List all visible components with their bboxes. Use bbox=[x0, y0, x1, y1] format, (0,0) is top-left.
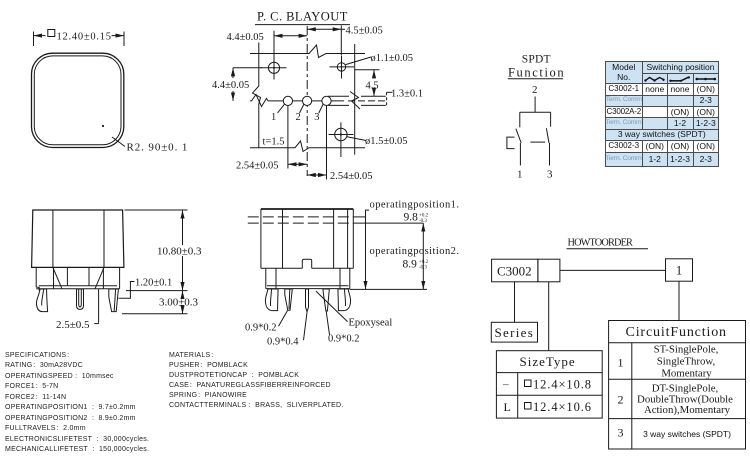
specifications text block bbox=[5, 351, 149, 456]
svg-text:-0.3: -0.3 bbox=[419, 265, 427, 270]
pcb bottom edge line with break bbox=[250, 141, 365, 152]
dimension 2.54±0.05 (bottom left) bbox=[236, 160, 307, 171]
label ø1.5±0.05 with leader bbox=[347, 136, 408, 147]
side view: right hook terminal bbox=[338, 289, 351, 311]
svg-text:+0.2: +0.2 bbox=[419, 214, 429, 219]
svg-text:4.5: 4.5 bbox=[366, 81, 379, 92]
terminal hole 3 bbox=[314, 96, 331, 123]
dimension 1.3±0.1 (strip thickness) bbox=[387, 88, 423, 105]
dimension 4.5±0.05 (top, center to hole) bbox=[307, 26, 383, 56]
svg-text:operatingposition2.: operatingposition2. bbox=[370, 246, 460, 257]
dimension 4.4±0.05 (left, vertical) bbox=[212, 68, 262, 101]
dimension 4.5 (right, vertical) bbox=[355, 70, 380, 96]
dimension 4.4±0.05 (top, hole to center) bbox=[227, 31, 308, 57]
svg-text:t=1.5: t=1.5 bbox=[263, 136, 285, 147]
label ø1.1±0.05 with leader bbox=[346, 53, 413, 65]
front view: middle terminal (U) bbox=[77, 289, 84, 309]
svg-text:Action),Momentary: Action),Momentary bbox=[644, 404, 731, 416]
HOWTOORDER heading bbox=[567, 238, 649, 249]
label 0.9*0.2 (left) with leader bbox=[245, 311, 288, 334]
SPDT schematic: actuator bracket bbox=[507, 137, 515, 149]
SPDT schematic: common stem and bar bbox=[520, 97, 551, 128]
terminal strip centre line with breaks bbox=[250, 95, 388, 107]
side view: base bbox=[266, 268, 350, 288]
svg-text:1: 1 bbox=[271, 112, 276, 123]
svg-text:2: 2 bbox=[296, 112, 301, 123]
SizeType table bbox=[496, 351, 602, 418]
CircuitFunction table bbox=[609, 321, 746, 450]
svg-text:1: 1 bbox=[517, 169, 523, 181]
front view: right terminal bbox=[109, 289, 119, 312]
svg-text:C3002: C3002 bbox=[497, 263, 532, 278]
svg-text:Series: Series bbox=[495, 325, 535, 340]
svg-text:0.9*0.4: 0.9*0.4 bbox=[267, 336, 299, 347]
front view: switch body bbox=[32, 210, 124, 267]
svg-text:Function: Function bbox=[508, 66, 565, 80]
svg-text:SingleThrow,: SingleThrow, bbox=[657, 355, 716, 367]
dimension 1.20±0.1 (terminal width) bbox=[119, 278, 173, 299]
svg-text:4.5±0.05: 4.5±0.05 bbox=[346, 26, 383, 37]
SPDT schematic: right contact lever bbox=[546, 128, 549, 165]
front view: base bbox=[36, 267, 119, 290]
svg-text:2.5±0.5: 2.5±0.5 bbox=[56, 319, 90, 331]
dimension 9.8 +0.2/-0.3 bbox=[354, 210, 429, 289]
dimension 2.54±0.05 (bottom right) bbox=[307, 171, 372, 182]
side view: switch body bbox=[261, 209, 353, 268]
pcb top edge line with break bbox=[250, 45, 365, 58]
label 0.9*0.4 with leader bbox=[267, 312, 307, 347]
SPDT Function heading bbox=[508, 54, 565, 80]
pcb left edge line with break bbox=[253, 43, 261, 148]
svg-text:1: 1 bbox=[618, 356, 624, 370]
svg-text:L: L bbox=[504, 400, 511, 414]
svg-text:R2. 90±0. 1: R2. 90±0. 1 bbox=[127, 142, 189, 154]
svg-text:2.54±0.05: 2.54±0.05 bbox=[330, 171, 373, 182]
svg-text:Epoxyseal: Epoxyseal bbox=[349, 317, 393, 328]
baseline extension for travel dims bbox=[350, 288, 427, 290]
SPDT schematic: terminal labels 1 and 3 bbox=[517, 169, 553, 181]
side view: centre terminal 0.9*0.4 bbox=[306, 289, 309, 312]
pcb right edge line bbox=[354, 44, 356, 155]
order code box 1 bbox=[666, 259, 693, 281]
connector: small box to SizeType bbox=[548, 282, 550, 351]
svg-text:2.54±0.05: 2.54±0.05 bbox=[236, 160, 279, 171]
svg-text:9.8: 9.8 bbox=[404, 212, 419, 224]
svg-text:3 way switches (SPDT): 3 way switches (SPDT) bbox=[643, 429, 731, 439]
SPDT schematic: left contact lever bbox=[516, 129, 521, 166]
svg-text:2: 2 bbox=[618, 393, 624, 407]
svg-text:3: 3 bbox=[314, 112, 319, 123]
svg-text:10.80±0.3: 10.80±0.3 bbox=[157, 246, 202, 258]
dimension R2.90±0.1 (corner radius) leader bbox=[112, 137, 188, 154]
svg-text:ST-SinglePole,: ST-SinglePole, bbox=[654, 343, 719, 355]
svg-text:12.40±0.15: 12.40±0.15 bbox=[57, 32, 112, 43]
terminal hole 2 bbox=[296, 96, 312, 123]
svg-text:8.9: 8.9 bbox=[403, 258, 418, 270]
dimension 12.40±0.15 (top width) bbox=[34, 30, 125, 47]
mounting hole top-left (crosshair) bbox=[261, 56, 287, 80]
svg-text:3: 3 bbox=[547, 169, 553, 181]
svg-text:ø1.1±0.05: ø1.1±0.05 bbox=[371, 53, 414, 64]
svg-text:3.00±0.3: 3.00±0.3 bbox=[159, 297, 199, 309]
dimension 3.00±0.3 (terminal length) bbox=[122, 291, 199, 314]
svg-text:–: – bbox=[502, 379, 509, 391]
svg-text:Momentary: Momentary bbox=[661, 367, 712, 379]
Series box bbox=[491, 322, 537, 342]
terminal hole 1 bbox=[271, 96, 293, 123]
dimension 10.80±0.3 (body height) bbox=[125, 210, 203, 291]
dimension 8.9 +0.2/-0.3 bbox=[354, 223, 429, 289]
hole ø1.5 bottom-right (crosshair) bbox=[329, 122, 354, 157]
svg-text:12.4×10.6: 12.4×10.6 bbox=[533, 400, 592, 414]
svg-text:ø1.5±0.05: ø1.5±0.05 bbox=[365, 136, 408, 147]
connector: C3002 to Series bbox=[514, 282, 516, 323]
svg-text:P. C. BLAYOUT: P. C. BLAYOUT bbox=[257, 10, 348, 24]
pcb center line (dashed vertical) bbox=[306, 26, 308, 176]
dimension 2.5±0.5 (terminal pitch) bbox=[56, 289, 99, 331]
extension line below hole 1 bbox=[287, 106, 289, 169]
model / switching position table bbox=[605, 61, 720, 167]
svg-text:1.3±0.1: 1.3±0.1 bbox=[391, 88, 423, 99]
svg-text:12.4×10.8: 12.4×10.8 bbox=[533, 378, 592, 392]
side view: left hook terminal bbox=[265, 289, 278, 311]
label Epoxyseal with leader bbox=[316, 291, 392, 328]
svg-text:4.4±0.05: 4.4±0.05 bbox=[212, 80, 249, 91]
side view: terminal 0.9*0.2 (left) bbox=[285, 289, 293, 310]
svg-text:HOWTOORDER: HOWTOORDER bbox=[568, 238, 634, 249]
svg-text:0.9*0.2: 0.9*0.2 bbox=[328, 334, 360, 345]
hole ø1.1 top-right (crosshair) bbox=[330, 56, 355, 79]
svg-text:4.4±0.05: 4.4±0.05 bbox=[227, 32, 264, 43]
svg-text:0.9*0.2: 0.9*0.2 bbox=[245, 322, 277, 333]
order code box C3002 bbox=[492, 259, 560, 282]
svg-text:CircuitFunction: CircuitFunction bbox=[626, 325, 727, 340]
svg-text:operatingposition1.: operatingposition1. bbox=[370, 199, 460, 210]
svg-text:2: 2 bbox=[532, 84, 538, 96]
top view: switch body outer outline bbox=[32, 53, 124, 147]
materials text block bbox=[169, 351, 344, 411]
label 0.9*0.2 (right) with leader bbox=[326, 311, 359, 344]
extension line below hole 3 bbox=[326, 106, 328, 180]
svg-text:1: 1 bbox=[676, 263, 683, 278]
SPDT schematic: centre link bbox=[530, 141, 545, 143]
title: P. C. BLAYOUT bbox=[255, 10, 350, 25]
connector: box 1 to CircuitFunction bbox=[678, 281, 680, 320]
travel break lines (positions) bbox=[248, 217, 354, 223]
front view: left hook terminal bbox=[36, 289, 47, 312]
svg-text:SizeType: SizeType bbox=[520, 354, 576, 369]
svg-text:1.20±0.1: 1.20±0.1 bbox=[135, 278, 172, 289]
terminal strip edges (right) bbox=[328, 92, 386, 110]
side view: terminal 0.9*0.2 (right) bbox=[323, 289, 329, 311]
connector: small box to box 1 bbox=[560, 269, 666, 271]
svg-text:+0.2: +0.2 bbox=[419, 260, 429, 265]
svg-text:3: 3 bbox=[618, 426, 624, 440]
svg-text:SPDT: SPDT bbox=[522, 54, 551, 66]
